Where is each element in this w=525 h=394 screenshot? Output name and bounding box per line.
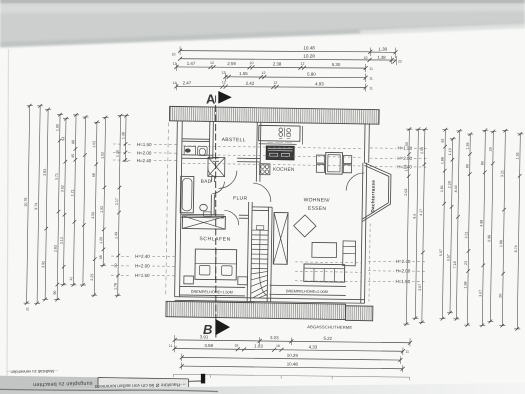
connecting line to black bar <box>189 380 202 382</box>
right wall dashes below bay <box>369 224 370 302</box>
svg-text:12: 12 <box>261 71 265 75</box>
svg-text:3.71: 3.71 <box>55 173 59 180</box>
page left edge faint line <box>7 49 9 376</box>
svg-text:10: 10 <box>250 61 254 65</box>
svg-text:11: 11 <box>69 277 73 281</box>
svg-text:12: 12 <box>222 80 226 84</box>
svg-text:1.39: 1.39 <box>466 143 470 150</box>
svg-text:DREMPELHÖHE=1.50M: DREMPELHÖHE=1.50M <box>191 290 233 295</box>
dim row 1.38 top right <box>370 51 395 53</box>
svg-text:12: 12 <box>273 81 277 85</box>
svg-text:Dachterrasse: Dachterrasse <box>370 180 376 213</box>
svg-text:1.07: 1.07 <box>404 165 408 172</box>
svg-text:KOCHEN: KOCHEN <box>273 167 295 173</box>
svg-text:3.58: 3.58 <box>204 343 213 348</box>
sheet edge dark line <box>0 389 218 391</box>
chairs right <box>343 156 351 164</box>
stove block <box>266 146 294 160</box>
svg-text:ESSEN: ESSEN <box>308 206 327 212</box>
svg-text:1.92: 1.92 <box>516 152 520 159</box>
faint lowest row <box>173 374 409 377</box>
svg-text:1.78: 1.78 <box>113 283 117 290</box>
right dimension chains <box>403 129 523 329</box>
shower <box>208 157 225 176</box>
svg-text:1.47: 1.47 <box>187 61 196 66</box>
stairwell right wall <box>267 207 268 302</box>
nightstand left <box>184 276 194 284</box>
svg-text:10: 10 <box>364 56 368 60</box>
knee wall line + box bedroom <box>180 286 246 296</box>
dim row 10.29 <box>182 357 401 360</box>
svg-text:12: 12 <box>301 62 305 66</box>
svg-text:6.98: 6.98 <box>487 235 491 242</box>
dim row 10.28 <box>180 59 396 60</box>
svg-text:3.13: 3.13 <box>60 237 64 244</box>
left roof overhang dashed <box>166 122 169 297</box>
section marker A triangle <box>218 91 232 104</box>
stair walk line <box>259 229 268 295</box>
svg-text:18: 18 <box>234 344 238 348</box>
svg-text:3.21: 3.21 <box>500 170 504 177</box>
svg-text:B: B <box>203 322 212 337</box>
abstell door arc <box>219 170 237 188</box>
svg-text:1.20: 1.20 <box>99 237 103 244</box>
bedroom door arc <box>224 210 239 225</box>
black bar <box>201 374 205 384</box>
svg-text:ABGASSCHUTHERME: ABGASSCHUTHERME <box>307 324 352 330</box>
bad door arc <box>212 181 224 193</box>
bottom-left grey band <box>0 376 98 391</box>
svg-text:BAD: BAD <box>201 179 212 185</box>
svg-text:1.49: 1.49 <box>114 232 118 239</box>
svg-text:10.29: 10.29 <box>287 353 299 358</box>
svg-text:1.38: 1.38 <box>377 55 386 60</box>
knee wall line + box living <box>270 285 346 295</box>
svg-text:1.38: 1.38 <box>121 132 125 139</box>
bidet oval <box>200 204 208 211</box>
coffee table <box>312 242 337 257</box>
lowest grey strip <box>0 383 525 394</box>
svg-text:10.78: 10.78 <box>24 198 28 207</box>
tall cupboard with X <box>273 213 288 265</box>
svg-text:4.17: 4.17 <box>419 209 423 216</box>
svg-text:1.90: 1.90 <box>55 124 59 131</box>
svg-text:1.98: 1.98 <box>463 282 467 289</box>
svg-text:1.03: 1.03 <box>254 344 263 349</box>
svg-text:3.02: 3.02 <box>60 185 64 192</box>
bathtub <box>180 176 194 213</box>
dim row 10.48 <box>180 51 370 52</box>
svg-text:9.6: 9.6 <box>413 214 417 219</box>
toilet WC <box>198 146 208 155</box>
svg-text:10: 10 <box>172 52 176 56</box>
H labels right <box>395 146 412 285</box>
svg-text:2.83: 2.83 <box>53 245 57 252</box>
svg-text:68: 68 <box>92 173 96 177</box>
svg-text:11: 11 <box>369 67 373 71</box>
svg-text:8.44: 8.44 <box>454 185 458 192</box>
svg-text:1.10: 1.10 <box>448 148 452 155</box>
svg-text:11: 11 <box>173 81 177 85</box>
svg-text:10.28: 10.28 <box>303 54 315 59</box>
Abstell bottom wall <box>213 158 261 162</box>
scanner top edge dark line <box>0 0 525 3</box>
landing door arc <box>253 183 271 202</box>
svg-text:7.18: 7.18 <box>453 261 457 268</box>
svg-text:45: 45 <box>71 154 75 158</box>
left chain labels (rotated) <box>22 124 125 313</box>
scanner band light streak <box>0 4 525 13</box>
svg-text:11: 11 <box>369 86 373 90</box>
svg-text:3.67: 3.67 <box>478 290 482 297</box>
svg-text:2.38: 2.38 <box>273 61 282 66</box>
svg-text:2.59: 2.59 <box>227 61 236 66</box>
shelf <box>343 241 356 266</box>
svg-text:2.03: 2.03 <box>404 189 408 196</box>
svg-text:10.48: 10.48 <box>287 361 299 366</box>
right outer wall upper <box>363 124 366 163</box>
svg-text:12: 12 <box>221 71 225 75</box>
svg-text:2.25: 2.25 <box>90 274 94 281</box>
svg-text:5.22: 5.22 <box>323 336 332 341</box>
svg-text:H=2.40: H=2.40 <box>396 259 411 264</box>
svg-text:1.30: 1.30 <box>115 150 119 157</box>
balcony door arc <box>346 173 364 191</box>
wall WC/Abstell <box>208 121 211 158</box>
svg-text:80: 80 <box>480 161 484 165</box>
kitchen sink counter <box>259 125 300 141</box>
bottom-middle lighter band <box>98 377 189 390</box>
roof wall top hatched band <box>169 106 379 124</box>
svg-text:22: 22 <box>398 59 402 63</box>
svg-text:60: 60 <box>498 294 502 298</box>
left outer wall <box>175 121 178 297</box>
bottom wall hatched band <box>166 301 346 319</box>
dim row 3 <box>176 67 365 68</box>
svg-text:A: A <box>206 92 216 107</box>
svg-text:3.03: 3.03 <box>270 335 279 340</box>
svg-text:H=1.50: H=1.50 <box>135 273 150 278</box>
chairs left <box>316 155 324 163</box>
svg-text:2.17: 2.17 <box>115 198 119 205</box>
svg-text:1.02: 1.02 <box>100 152 104 159</box>
svg-text:88: 88 <box>71 140 75 144</box>
stair treads <box>251 230 268 269</box>
svg-text:12: 12 <box>210 61 214 65</box>
bay window outer <box>362 163 391 222</box>
svg-text:56: 56 <box>405 142 409 146</box>
svg-text:3.21: 3.21 <box>464 232 468 239</box>
nightstand right <box>238 277 248 285</box>
svg-text:18: 18 <box>276 344 280 348</box>
bottom wall hatched band right step <box>345 306 373 321</box>
WC room walls <box>182 139 213 159</box>
svg-text:FLUR: FLUR <box>233 196 247 202</box>
svg-text:11: 11 <box>173 62 177 66</box>
bay window inner <box>363 165 389 219</box>
svg-text:H=2.40: H=2.40 <box>135 254 150 259</box>
svg-text:3.57: 3.57 <box>446 254 450 261</box>
svg-text:H=2.00: H=2.00 <box>396 268 411 273</box>
bottom outer wall <box>175 297 365 300</box>
svg-text:3.07: 3.07 <box>418 284 422 291</box>
H dashed lines bottom <box>111 256 426 283</box>
second sheet sliver top right <box>360 24 525 35</box>
svg-text:5.07: 5.07 <box>439 249 443 256</box>
svg-text:1.88: 1.88 <box>440 157 444 164</box>
svg-text:DREMPELHÖHE=2.00M: DREMPELHÖHE=2.00M <box>286 289 328 294</box>
left chain tick slashes <box>25 104 128 307</box>
svg-text:H=1.50: H=1.50 <box>395 279 410 284</box>
couch <box>304 264 345 282</box>
H dashed lines top <box>113 143 428 167</box>
svg-text:80: 80 <box>465 164 469 168</box>
wall Abstell/kitchen <box>255 122 258 182</box>
svg-text:H=2.00: H=2.00 <box>137 150 152 155</box>
wall bad/flur <box>211 176 215 214</box>
right chain tick slashes <box>404 127 522 330</box>
svg-text:1.21: 1.21 <box>70 189 74 196</box>
scanner band darker lower part <box>0 23 525 48</box>
svg-text:H=1.50: H=1.50 <box>137 142 152 147</box>
svg-text:5.30: 5.30 <box>332 62 341 67</box>
bedroom north wall <box>181 214 249 218</box>
svg-text:93: 93 <box>61 137 65 141</box>
svg-text:4.98: 4.98 <box>479 220 483 227</box>
left dimension chains <box>24 106 130 305</box>
scanner top band <box>0 0 525 48</box>
svg-text:2.29: 2.29 <box>448 181 452 188</box>
rug diamond <box>293 215 316 237</box>
dim row 3.58 / 1.03 / 4.33 <box>175 348 403 351</box>
svg-text:1.02: 1.02 <box>92 141 96 148</box>
svg-text:1.52: 1.52 <box>100 206 104 213</box>
svg-text:H=2.40: H=2.40 <box>137 158 152 163</box>
svg-text:4.93: 4.93 <box>315 81 324 86</box>
svg-text:1.81: 1.81 <box>440 185 444 192</box>
dining table <box>325 152 342 174</box>
bed <box>195 249 237 280</box>
svg-text:48: 48 <box>99 255 103 259</box>
svg-text:8.74: 8.74 <box>514 245 518 252</box>
svg-text:10.48: 10.48 <box>303 46 315 51</box>
svg-text:2.42: 2.42 <box>246 81 255 86</box>
H labels left top <box>135 142 152 278</box>
washbasin WC <box>184 146 196 155</box>
svg-text:WOHNEN/: WOHNEN/ <box>304 197 331 203</box>
svg-text:3.92: 3.92 <box>41 261 45 268</box>
svg-text:3.50: 3.50 <box>91 212 95 219</box>
section marker B triangle <box>215 319 230 335</box>
hob unit <box>260 164 270 175</box>
svg-text:1.55: 1.55 <box>239 71 248 76</box>
svg-text:21: 21 <box>25 307 29 311</box>
dim row 3.91 / 3.03 / 5.22 <box>175 340 410 343</box>
dim row 4 <box>225 76 365 79</box>
svg-text:92: 92 <box>441 139 445 143</box>
stairwell top wall <box>252 207 272 211</box>
wardrobe bedroom with X <box>182 216 225 229</box>
counter edge line <box>259 143 297 146</box>
svg-text:11: 11 <box>369 77 373 81</box>
svg-text:29: 29 <box>489 147 493 151</box>
middle band box lines <box>98 378 189 391</box>
svg-text:1.88: 1.88 <box>499 240 503 247</box>
right chain labels (rotated) <box>402 138 519 298</box>
svg-text:11: 11 <box>405 350 409 354</box>
svg-text:H=2.00: H=2.00 <box>397 156 412 161</box>
svg-text:11: 11 <box>169 344 173 348</box>
svg-text:23: 23 <box>464 261 468 265</box>
svg-text:50: 50 <box>114 264 118 268</box>
svg-text:2.47: 2.47 <box>183 80 192 85</box>
svg-text:9.74: 9.74 <box>34 203 38 210</box>
svg-text:ABSTELL: ABSTELL <box>222 137 246 143</box>
right outer wall lower <box>361 163 363 303</box>
sink symbols <box>279 128 283 132</box>
svg-text:3.83: 3.83 <box>43 169 47 176</box>
svg-text:4.33: 4.33 <box>309 344 318 349</box>
svg-text:--.Maßstab zu verwenden.--: --.Maßstab zu verwenden.-- <box>6 369 58 375</box>
stair winders <box>251 271 268 298</box>
stairwell left wall <box>247 202 252 302</box>
stair top landing mark <box>256 226 264 230</box>
svg-text:1.38: 1.38 <box>378 47 387 52</box>
svg-text:SCHLAFEN: SCHLAFEN <box>199 236 231 242</box>
svg-text:2.56: 2.56 <box>420 147 424 154</box>
dim row 5 <box>176 86 365 87</box>
svg-text:5.80: 5.80 <box>307 72 316 77</box>
svg-text:H=2.00: H=2.00 <box>135 263 150 268</box>
dim row 10.48 bottom <box>182 366 403 369</box>
svg-text:90: 90 <box>53 291 57 295</box>
section line A-B <box>215 96 217 338</box>
